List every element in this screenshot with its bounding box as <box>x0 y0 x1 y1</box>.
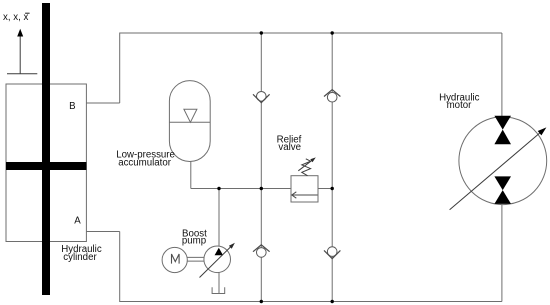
hydraulic motor circle <box>459 117 547 205</box>
boost pump circle <box>204 246 231 273</box>
wire left check-valve branch <box>260 33 262 302</box>
piston rod <box>42 3 50 295</box>
wire accumulator drop <box>190 162 192 189</box>
junction relief right <box>331 187 334 190</box>
motion arrow x <box>7 29 37 74</box>
wire right check-valve branch <box>331 33 333 302</box>
motor bottom bowtie <box>494 176 511 190</box>
wire relief line right <box>318 188 332 190</box>
svg-text:pump: pump <box>182 235 206 246</box>
accumulator <box>169 81 210 162</box>
relief valve spring <box>302 159 311 176</box>
wire top main line B-to-motor <box>120 33 502 103</box>
wire pump to tank <box>218 272 220 293</box>
junction relief left <box>260 187 263 190</box>
check valve CV4 bottom-right <box>324 247 340 259</box>
boost pump electric motor M <box>162 247 187 272</box>
junction bottom-left branch <box>260 300 263 303</box>
boost pump outlet triangle <box>215 248 223 256</box>
relief valve body <box>291 176 318 202</box>
svg-text:cylinder: cylinder <box>63 252 97 263</box>
boost pump variable arrow <box>200 243 235 278</box>
wire motor lower drop <box>501 203 503 302</box>
label M <box>172 254 180 264</box>
check valve CV2 top-right <box>324 90 340 102</box>
wire port A <box>87 231 120 233</box>
junction top-right branch <box>331 31 334 34</box>
svg-text:x, x, x: x, x, x <box>3 12 28 23</box>
svg-text:B: B <box>69 101 75 112</box>
label x xdot xddot <box>3 12 30 23</box>
junction top-left branch <box>260 31 263 34</box>
wire port B <box>87 102 120 104</box>
relief valve adjust arrow <box>298 157 316 170</box>
check valve CV3 bottom-left <box>253 245 270 257</box>
check valve CV1 top-left <box>253 92 270 103</box>
hydraulic cylinder body <box>6 84 86 242</box>
junction bottom-right branch <box>331 300 334 303</box>
relief valve internal arrow <box>292 192 318 198</box>
wire bottom main line A-to-motor <box>120 232 502 302</box>
svg-text:accumulator: accumulator <box>118 158 172 169</box>
svg-text:motor: motor <box>447 100 473 111</box>
svg-text:A: A <box>74 215 81 226</box>
tank <box>212 287 225 293</box>
wire motor upper drop <box>501 33 503 118</box>
svg-text:valve: valve <box>278 142 301 153</box>
junction pump tee <box>217 187 220 190</box>
piston <box>6 162 86 170</box>
motor top bowtie <box>494 116 511 130</box>
motor variable arrow <box>450 127 547 209</box>
wire boost pump drop <box>218 189 220 247</box>
wire relief line left <box>191 188 291 190</box>
shaft coupling <box>187 257 204 261</box>
